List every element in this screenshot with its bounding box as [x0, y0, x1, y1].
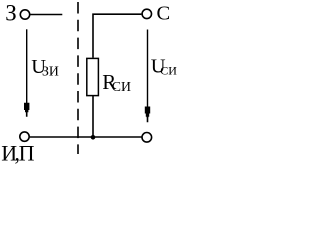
svg-text:ЗИ: ЗИ: [42, 64, 59, 79]
svg-text:З: З: [5, 0, 17, 25]
svg-text:С: С: [157, 3, 171, 25]
svg-text:СИ: СИ: [112, 79, 131, 94]
svg-text:СИ: СИ: [160, 64, 177, 78]
svg-text:П: П: [19, 140, 35, 165]
